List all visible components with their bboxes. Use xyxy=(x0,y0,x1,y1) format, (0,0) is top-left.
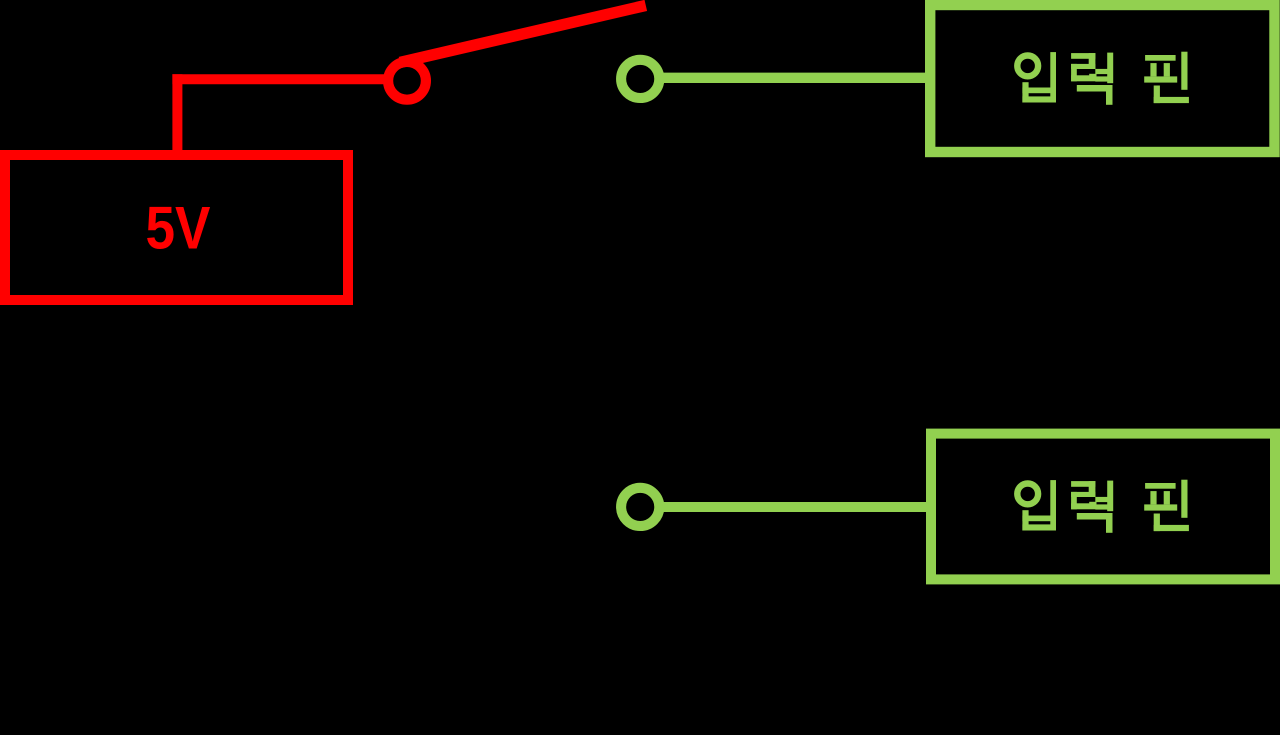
svg-text:5V: 5V xyxy=(146,195,211,262)
